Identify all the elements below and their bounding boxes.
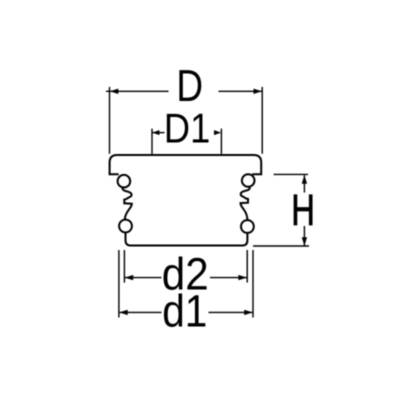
- dimension d1 extension line left: [118, 250, 120, 318]
- dimension H extension line top: [274, 173, 308, 175]
- rib circle bottom-left: [119, 220, 132, 233]
- dimension H extension line bottom: [253, 245, 309, 247]
- dimension D1 arrowhead left: [152, 130, 159, 135]
- rib circle bottom-right: [241, 220, 254, 233]
- dimension d1 line right segment: [209, 311, 253, 313]
- dimension D extension line left: [109, 87, 111, 154]
- svg-text:d1: d1: [162, 286, 207, 337]
- dimension d1 arrowhead right: [244, 310, 253, 315]
- dimension H arrowhead bottom: [302, 237, 307, 246]
- dimension d2 line right segment: [210, 277, 247, 279]
- dimension D1 line left segment: [152, 132, 165, 134]
- svg-text:H: H: [291, 186, 315, 235]
- dimension H line bottom segment: [303, 226, 305, 246]
- dimension D arrowhead right: [254, 89, 263, 94]
- dimension d1 extension line right: [252, 250, 254, 318]
- dimension d2 arrowhead right: [238, 275, 247, 280]
- svg-text:D: D: [176, 61, 203, 111]
- left wavy side profile: [123, 187, 132, 219]
- dimension D arrowhead left: [110, 89, 119, 94]
- dimension D extension line right: [261, 87, 263, 154]
- dimension d2 extension line right: [246, 250, 248, 283]
- svg-text:D1: D1: [164, 105, 210, 152]
- dimension d2 extension line left: [123, 250, 125, 283]
- right wavy side profile: [241, 187, 250, 220]
- dimension D1 extension line right: [220, 129, 222, 154]
- dimension D line right segment: [219, 90, 263, 92]
- dimension D1 extension line left: [151, 129, 153, 154]
- flange outline: [110, 155, 262, 174]
- rib circle top-right: [242, 174, 255, 187]
- dimension H line top segment: [303, 175, 305, 192]
- dimension H arrowhead top: [302, 175, 307, 184]
- body bottom edge: [126, 232, 248, 245]
- dimension D line left segment: [106, 90, 169, 92]
- dimension d1 arrowhead left: [119, 310, 128, 315]
- dimension d2 line left segment: [125, 277, 162, 279]
- rib circle top-left: [118, 175, 131, 188]
- dimension D1 arrowhead right: [214, 130, 221, 135]
- dimension d1 line left segment: [119, 311, 161, 313]
- dimension d2 arrowhead left: [125, 275, 134, 280]
